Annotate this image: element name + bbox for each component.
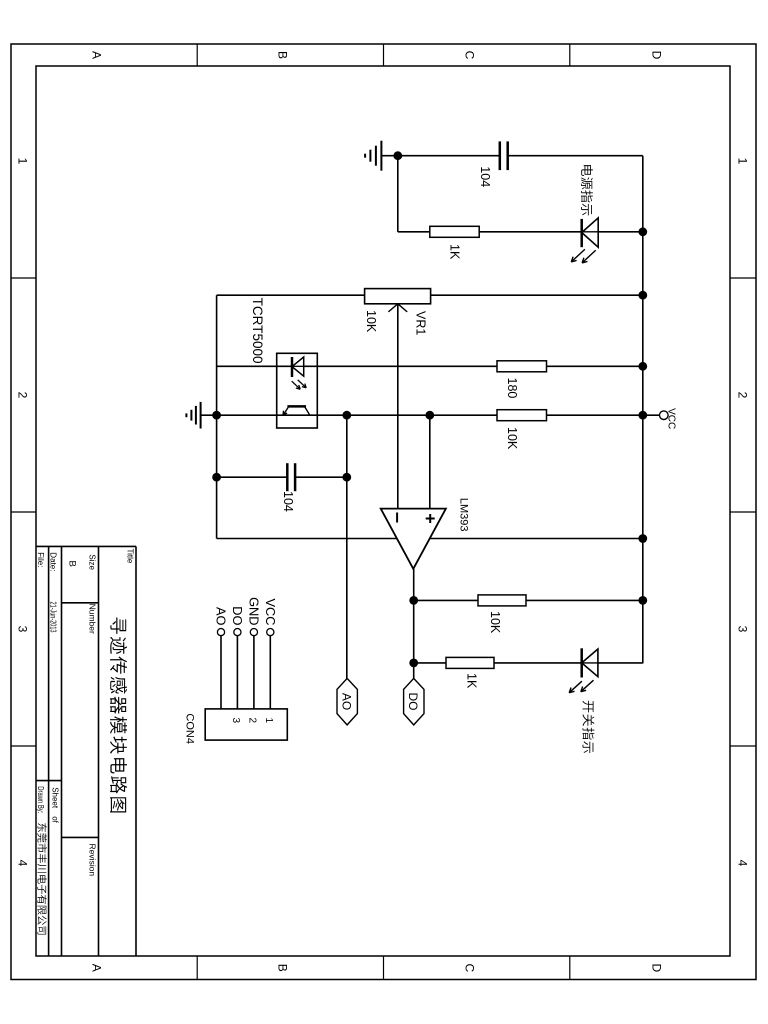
svg-text:180: 180 <box>505 378 519 399</box>
svg-text:B: B <box>276 51 290 59</box>
node rail-VR1 <box>638 291 647 300</box>
resistor R 180 <box>497 361 547 372</box>
svg-text:1K: 1K <box>448 244 462 260</box>
svg-text:A: A <box>90 964 104 972</box>
node AO junction <box>342 411 351 420</box>
node rail-R10K <box>638 411 647 420</box>
wire VR1 to ground bus <box>217 294 365 296</box>
node rail-opamp column <box>638 534 647 543</box>
label 开关指示 <box>582 701 594 753</box>
ground symbol GND1 <box>365 141 398 171</box>
LED D2 switch indicator <box>582 648 598 677</box>
svg-text:Drawn By:: Drawn By: <box>36 786 45 813</box>
connector CON4 body <box>205 709 287 740</box>
svg-text:3: 3 <box>736 626 750 633</box>
node rail-R180 <box>638 362 647 371</box>
node noninverting junction <box>425 411 434 420</box>
CON4 pin GND <box>250 629 257 709</box>
svg-text:LM393: LM393 <box>458 498 470 532</box>
svg-text:VR1: VR1 <box>414 311 428 335</box>
wire rail to R10K <box>547 414 643 416</box>
LED D1 light arrows <box>571 249 595 263</box>
TCRT5000 LED arrows <box>292 380 307 389</box>
svg-text:DO: DO <box>230 606 245 625</box>
svg-text:1: 1 <box>736 158 750 165</box>
svg-text:AO: AO <box>214 607 229 626</box>
wire ground link <box>397 156 399 232</box>
op-amp plus sign <box>426 514 435 523</box>
op-amp U1 LM393 <box>381 509 446 569</box>
svg-text:10K: 10K <box>488 611 502 634</box>
svg-text:TCRT5000: TCRT5000 <box>250 298 265 364</box>
svg-text:104: 104 <box>478 166 492 187</box>
TCRT5000 phototransistor <box>283 406 310 415</box>
svg-text:3: 3 <box>230 718 241 724</box>
svg-text:10K: 10K <box>364 310 378 333</box>
title block label Sheet of <box>50 787 59 823</box>
node rail-D1 <box>638 227 647 236</box>
LED D1 power indicator <box>582 218 599 247</box>
title block grid <box>36 546 136 956</box>
svg-text:DO: DO <box>406 693 420 711</box>
LED D2 light arrows <box>569 680 593 693</box>
flag DO <box>404 678 424 725</box>
wire R180 to TCRT LED <box>304 365 497 367</box>
wire rail to R180 <box>547 365 643 367</box>
wire AO line <box>346 415 348 678</box>
title text 寻迹传感器模块电路图 <box>110 617 127 812</box>
svg-text:4: 4 <box>736 860 750 867</box>
svg-text:Revision: Revision <box>88 844 98 877</box>
wire VCC port stem <box>643 414 660 416</box>
svg-text:AO: AO <box>339 693 353 710</box>
svg-text:of: of <box>50 816 59 823</box>
wire AO to C2 <box>295 476 347 478</box>
ground symbol GND2 <box>186 402 216 429</box>
svg-text:B: B <box>67 561 78 567</box>
wire D2 to rail corner <box>598 662 643 664</box>
svg-text:A: A <box>90 51 104 59</box>
CON4 pin AO <box>217 629 224 709</box>
wire C1 to ground node <box>398 155 500 157</box>
node C2 top <box>342 473 351 482</box>
wire TCRT LED to ground bus <box>217 365 292 367</box>
node rail-feedback <box>638 596 647 605</box>
wire rail to VR1 <box>431 294 643 296</box>
svg-text:Title: Title <box>126 549 135 564</box>
wire to noninverting input <box>429 415 431 508</box>
capacitor C2 104 <box>287 463 295 491</box>
svg-text:C: C <box>463 51 477 60</box>
svg-text:GND: GND <box>247 597 262 625</box>
node output-switchled <box>409 659 418 668</box>
svg-text:104: 104 <box>281 491 295 512</box>
svg-text:21-Jun-2013: 21-Jun-2013 <box>49 602 58 633</box>
wire ground bus <box>216 295 218 538</box>
resistor R 10K (feedback) <box>478 595 526 606</box>
svg-text:2: 2 <box>247 718 258 724</box>
wire wiper to inverting input <box>397 304 399 509</box>
wire switch branch <box>414 662 446 664</box>
svg-text:3: 3 <box>16 626 30 633</box>
svg-text:Date:: Date: <box>49 552 58 571</box>
resistor R 10K (pullup) <box>497 410 547 421</box>
wire rail to D1 <box>598 231 643 233</box>
wire output node to R10K fb <box>414 599 478 601</box>
wire op-amp output <box>413 569 415 679</box>
power port VCC circle <box>660 411 669 420</box>
flag AO <box>337 678 357 725</box>
svg-text:CON4: CON4 <box>184 713 196 744</box>
wire R1K to LED D2 <box>494 662 582 664</box>
svg-text:4: 4 <box>16 860 30 867</box>
node output-feedback <box>409 596 418 605</box>
svg-text:Sheet: Sheet <box>50 787 59 809</box>
TCRT5000 internal LED <box>292 357 304 377</box>
wire R10K fb to rail <box>526 599 643 601</box>
potentiometer VR1 body <box>365 289 431 304</box>
title block company 东莞市丰川电子有限公司 <box>37 823 47 934</box>
svg-text:2: 2 <box>16 392 30 399</box>
svg-text:2: 2 <box>736 392 750 399</box>
svg-text:C: C <box>463 963 477 972</box>
svg-text:1: 1 <box>263 718 274 724</box>
resistor R 1K (switch LED) <box>446 657 494 668</box>
VR1 wiper arrow <box>388 304 407 312</box>
svg-text:File:: File: <box>36 552 45 567</box>
wire R10K down <box>217 414 497 416</box>
resistor R 1K (power LED) <box>430 226 479 237</box>
node ground junction A <box>393 151 402 160</box>
wire C2 to ground bus <box>217 476 288 478</box>
wire D1 to R1 <box>479 231 582 233</box>
node ground junction B <box>212 411 221 420</box>
svg-text:Size: Size <box>88 554 97 570</box>
wire VCC rail <box>642 156 644 664</box>
svg-text:B: B <box>276 964 290 972</box>
svg-text:10K: 10K <box>505 427 519 450</box>
optocoupler TCRT5000 box <box>277 353 318 428</box>
svg-text:VCC: VCC <box>263 598 278 625</box>
svg-text:D: D <box>650 963 664 972</box>
node C2 bottom <box>212 473 221 482</box>
svg-text:1K: 1K <box>465 673 479 689</box>
svg-text:VCC: VCC <box>666 408 677 429</box>
svg-text:Number: Number <box>88 604 98 634</box>
op-amp minus sign <box>396 513 398 523</box>
wire R to ground link <box>398 231 430 233</box>
svg-text:D: D <box>650 51 664 60</box>
svg-text:1: 1 <box>16 158 30 165</box>
wire rail to ground bus (behind op-amp) <box>217 538 643 540</box>
CON4 pin DO <box>234 629 241 709</box>
CON4 pin VCC <box>267 629 274 709</box>
capacitor C1 104 <box>500 141 508 170</box>
wire rail to C1 <box>508 155 643 157</box>
label 电源指示 <box>581 165 593 215</box>
